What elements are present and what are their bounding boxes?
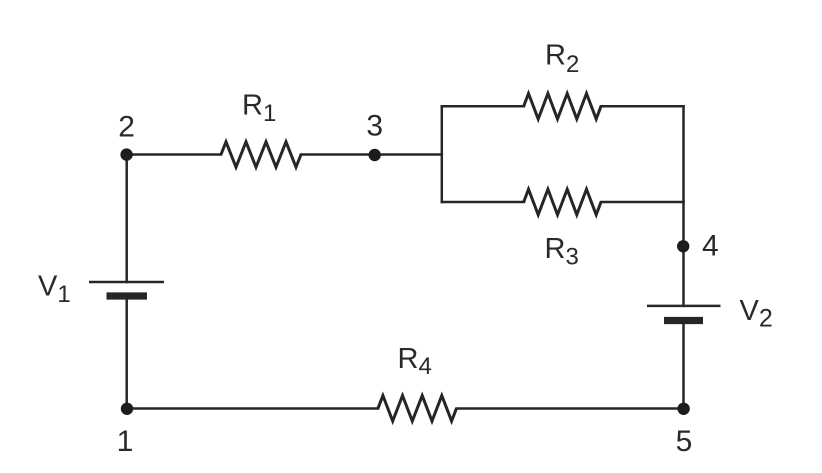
svg-text:3: 3 — [366, 110, 383, 143]
wire R1 to node3 to left bracket — [301, 153, 442, 156]
wire bottom right segment — [457, 407, 684, 410]
wire left vertical lower — [125, 296, 128, 409]
battery V2 — [647, 306, 721, 321]
wire bottom left segment — [127, 407, 378, 410]
wire left bracket vertical — [441, 106, 444, 202]
svg-text:2: 2 — [118, 110, 135, 143]
svg-text:4: 4 — [702, 230, 719, 263]
svg-text:5: 5 — [676, 425, 693, 458]
wire top branch right lead — [601, 105, 684, 108]
wire bottom branch right lead — [601, 201, 684, 204]
node 3 — [369, 149, 381, 161]
resistor R3 — [524, 189, 601, 215]
node 5 — [677, 403, 689, 415]
node 2 — [120, 148, 132, 160]
wire right vertical upper — [682, 106, 685, 306]
node 4 — [677, 240, 689, 252]
resistor R2 — [524, 94, 601, 120]
wire right vertical lower — [682, 321, 685, 409]
svg-text:1: 1 — [117, 425, 134, 458]
wire left vertical upper — [125, 155, 128, 283]
resistor R4 — [378, 396, 457, 422]
wire bottom branch left lead — [442, 201, 524, 204]
battery V1 — [89, 282, 164, 296]
resistor R1 — [221, 142, 301, 167]
node 1 — [121, 403, 133, 415]
wire node2 to R1 — [127, 153, 221, 156]
wire top branch left lead — [442, 105, 524, 108]
